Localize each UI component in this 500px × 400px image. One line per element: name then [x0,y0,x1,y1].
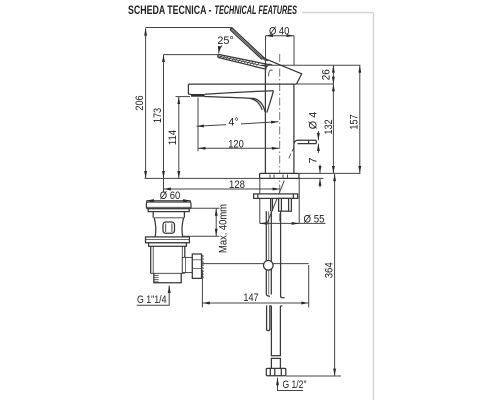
aerator dark block [191,94,205,97]
spout top rear edge [205,91,274,95]
dim 157 vertical [359,65,361,173]
ball joint [264,261,274,271]
popup lift rod pair [266,198,272,296]
svg-text:Ø 4: Ø 4 [307,112,319,129]
head cap [262,58,301,85]
svg-text:SCHEDA TECNICA -: SCHEDA TECNICA - [128,5,212,17]
label 4deg [226,117,241,128]
spout underside inner curve [250,98,263,110]
svg-text:Max. 40mm: Max. 40mm [217,204,229,253]
svg-text:114: 114 [167,130,179,145]
spout left edge [187,84,189,94]
svg-text:364: 364 [324,262,336,278]
washer bar [254,194,298,199]
dim 120 horizontal [198,147,279,149]
page border right rule [373,13,375,400]
svg-text:173: 173 [152,108,164,123]
concealed body box [260,178,326,223]
section slash [267,181,285,225]
short rod below 147 [267,305,270,330]
extension line cap bottom (right) [296,83,333,85]
column left edge [264,84,266,173]
dim O40 top [266,36,295,85]
knurled nut [192,254,203,279]
svg-text:7: 7 [308,157,320,163]
dim 114 vertical line [176,97,191,179]
counter top extension right [299,172,361,174]
plate bottom extension right [299,177,324,179]
svg-text:132: 132 [323,119,335,134]
aerator centre extension line [197,98,199,152]
dim 128 horizontal [164,188,281,190]
svg-text:Ø 55: Ø 55 [304,213,325,225]
spout top edge [188,83,296,85]
svg-text:G 1"1/4: G 1"1/4 [137,294,167,306]
overflow window [163,222,175,233]
centerline faucet [279,54,281,222]
spout right fin curve [267,91,274,113]
lever closed position [218,54,270,69]
base plate [260,173,299,178]
svg-text:147: 147 [243,292,258,304]
spout lip [188,93,191,95]
dim 132 vertical [332,84,334,173]
extension line head top (right) [261,64,360,66]
svg-text:206: 206 [134,95,146,110]
drain tailpiece [154,273,181,283]
dim O4 arrows [317,131,319,153]
dim 7 arrows [319,165,321,188]
spout underside curve [205,97,266,113]
dim 26 vertical [332,65,334,84]
column right edge [293,84,295,173]
supply hose lower [270,306,283,369]
drain spool body [153,212,184,237]
25deg arc [219,46,222,54]
svg-text:26: 26 [321,69,333,80]
svg-text:Ø 40: Ø 40 [269,26,290,38]
svg-text:TECHNICAL FEATURES: TECHNICAL FEATURES [215,5,298,17]
bottom reference line [286,375,341,377]
svg-text:Ø 60: Ø 60 [160,190,181,202]
supply fitting under plate [279,198,292,211]
dim 147 [202,265,308,308]
drain side connector [182,257,192,272]
dim 206 vertical line [146,28,233,179]
extension line aerator underside [176,96,191,98]
O4 side tube [289,140,317,158]
extension line to closed lever tip [164,54,219,56]
drain mid flange [146,237,190,246]
svg-text:4°: 4° [228,116,238,128]
lift rod single [281,211,285,298]
dim 173 vertical line [164,55,219,193]
dim Max 40mm [183,208,220,236]
svg-text:120: 120 [228,139,244,151]
dim O60 [147,201,191,203]
svg-text:G 1/2": G 1/2" [283,379,307,391]
drain lower body [151,246,185,273]
deck line [145,177,301,179]
svg-text:25°: 25° [217,35,233,47]
lever raised 25deg [230,28,267,61]
extension line top (lever tip) [146,27,233,29]
dim 4 deg sloped line [197,122,279,127]
page border top rule [302,12,374,14]
drain top flange [146,202,191,212]
dim 364 [334,174,336,376]
plate gasket marks [270,175,288,178]
G 1/2 hex fitting [266,368,286,375]
svg-text:157: 157 [348,114,360,129]
popup rod horizontal [202,263,309,265]
svg-text:128: 128 [229,179,245,191]
